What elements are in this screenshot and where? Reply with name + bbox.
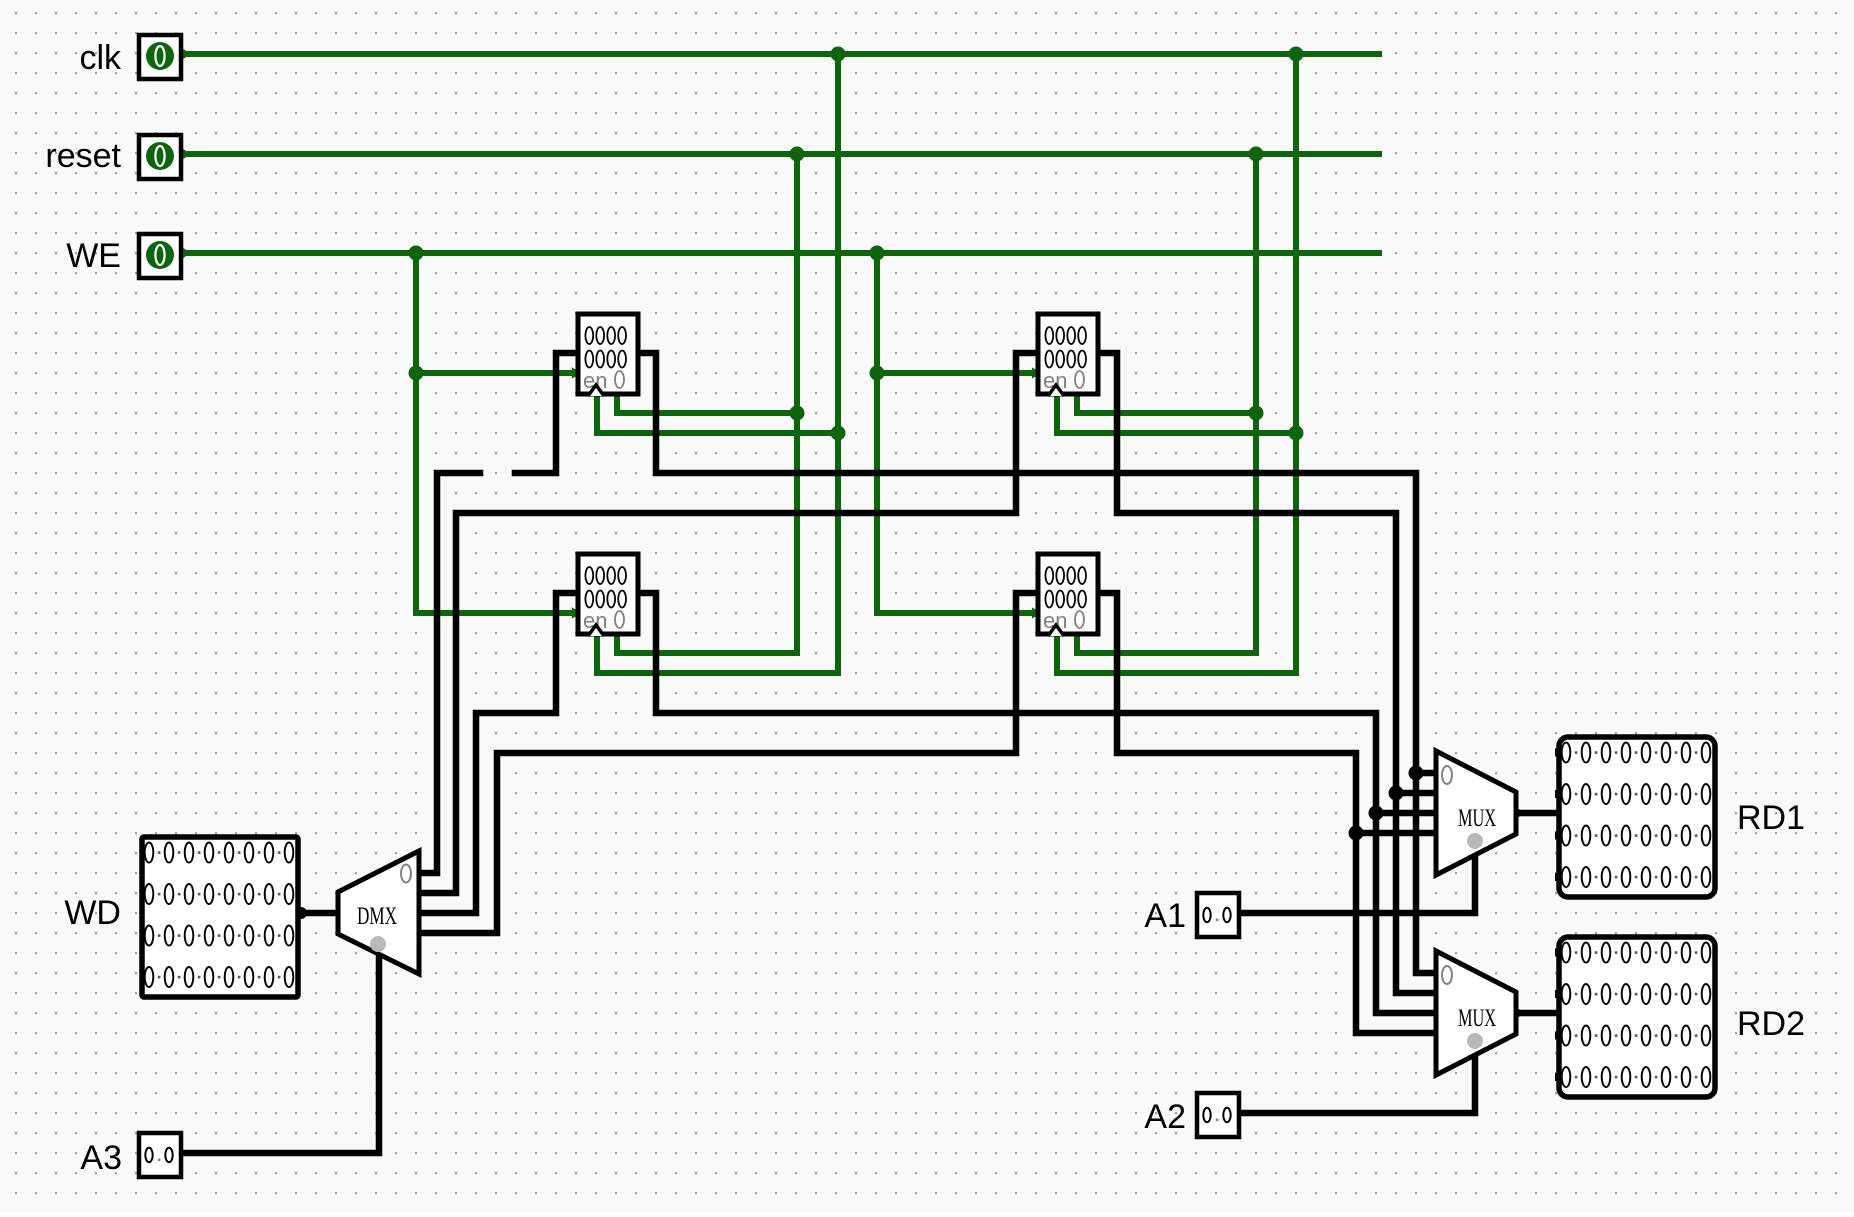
svg-text:DMX: DMX: [357, 903, 397, 930]
svg-text:A3: A3: [80, 1139, 122, 1177]
svg-text:MUX: MUX: [1458, 1005, 1496, 1032]
svg-text:clk: clk: [79, 39, 122, 77]
svg-text:WD: WD: [64, 894, 121, 932]
svg-text:reset: reset: [45, 137, 121, 175]
svg-text:WE: WE: [66, 237, 121, 275]
svg-text:A2: A2: [1144, 1098, 1186, 1136]
svg-text:MUX: MUX: [1458, 805, 1496, 832]
svg-text:RD2: RD2: [1737, 1005, 1805, 1043]
svg-text:A1: A1: [1144, 897, 1186, 935]
svg-text:RD1: RD1: [1737, 799, 1805, 837]
